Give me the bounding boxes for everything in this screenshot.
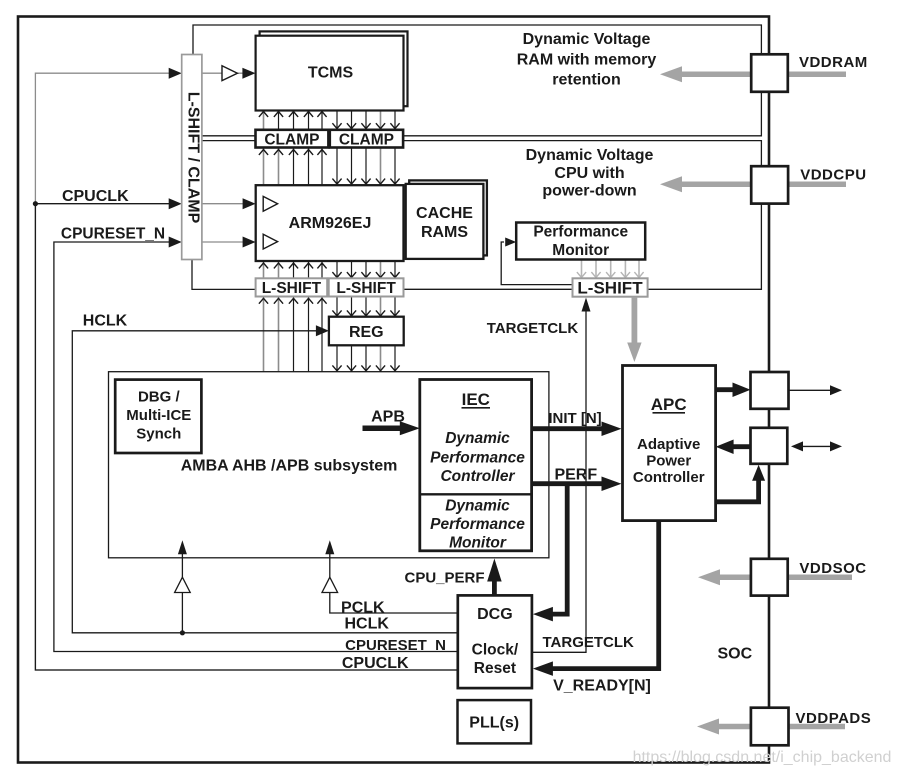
block CLAMP (left)	[256, 130, 329, 148]
svg-text:TCMS: TCMS	[308, 65, 354, 82]
junction CPUCLK trunk dot	[33, 201, 38, 206]
svg-text:Performance: Performance	[430, 516, 525, 533]
svg-text:PCLK: PCLK	[341, 600, 385, 617]
svg-text:Adaptive: Adaptive	[637, 436, 700, 453]
block TCMS	[256, 36, 404, 111]
wire APB bus arrow into IEC	[363, 426, 403, 432]
power arrow VDDPADS supply (gray, pointing left)	[718, 724, 845, 730]
svg-text:L-SHIFT / CLAMP: L-SHIFT / CLAMP	[185, 92, 202, 224]
svg-text:RAMS: RAMS	[421, 224, 468, 241]
wire CPURESET_N net: DCG left output, trunk up, into L-SHIFT/CLAMP	[54, 242, 458, 652]
buffer symbol inside ARM926EJ (reset input triangle)	[263, 234, 277, 249]
pad APC feedback	[751, 428, 788, 464]
svg-text:CPURESET_N: CPURESET_N	[61, 226, 165, 243]
svg-text:RAM with memory: RAM with memory	[517, 52, 657, 69]
Dynamic Voltage CPU power-domain region outline	[202, 141, 761, 290]
svg-text:Performance: Performance	[430, 450, 525, 467]
buffer level-shifter symbol on HCLK branch (open triangle up)	[175, 577, 191, 592]
svg-text:https://blog.csdn.net/i_chip_b: https://blog.csdn.net/i_chip_backend	[633, 749, 892, 766]
underline for APC title	[653, 412, 686, 414]
svg-text:VDDCPU: VDDCPU	[800, 167, 866, 184]
svg-text:VDDSOC: VDDSOC	[799, 560, 866, 577]
wire PERF branch down to DCG	[550, 484, 567, 614]
pad VDDSOC	[751, 559, 788, 596]
bus bundle CLAMP-to-TCMS (arrows up into TCMS)	[263, 112, 265, 130]
svg-text:CLAMP: CLAMP	[264, 131, 319, 148]
bus bundle L-SHIFT-to-ARM (arrows up into ARM)	[263, 262, 265, 278]
block CLAMP (right)	[330, 130, 403, 148]
block CACHE RAMS	[406, 184, 484, 259]
block L-SHIFT (performance monitor domain crossing)	[573, 278, 648, 296]
block CACHE RAMS (shadow page)	[409, 180, 487, 255]
block L-SHIFT (left, under ARM)	[256, 278, 328, 296]
block L-SHIFT / CLAMP (vertical level shifter/clamp column)	[182, 55, 202, 260]
svg-text:TARGETCLK: TARGETCLK	[543, 634, 635, 651]
svg-text:CPUCLK: CPUCLK	[342, 655, 409, 672]
svg-text:HCLK: HCLK	[344, 616, 389, 633]
svg-text:CACHE: CACHE	[416, 205, 473, 222]
wire CPUCLK branch into L-SHIFT/CLAMP (upper, y73)	[169, 68, 182, 79]
wire Performance Monitor feedback from L-SHIFT	[501, 242, 572, 285]
svg-text:APB: APB	[371, 409, 405, 426]
wire thick gray from L-SHIFT down to APC top	[632, 297, 638, 344]
block REG	[329, 317, 404, 346]
wire V_READY[N] from APC down into DCG	[550, 521, 659, 669]
svg-text:Dynamic Voltage: Dynamic Voltage	[526, 147, 654, 164]
svg-text:L-SHIFT: L-SHIFT	[262, 280, 322, 297]
svg-text:L-SHIFT: L-SHIFT	[336, 280, 396, 297]
svg-text:VDDRAM: VDDRAM	[799, 54, 868, 71]
svg-text:power-down: power-down	[542, 183, 636, 200]
power arrow VDDCPU supply (gray, pointing left)	[681, 182, 846, 188]
buffer level-shifter symbol on PCLK branch (open triangle up)	[322, 577, 338, 592]
wire HCLK branch up into AMBA subsystem through level-shifter buffer	[181, 593, 183, 633]
wire TARGETCLK: DCG right output up into L-SHIFT	[532, 311, 586, 652]
svg-text:CPU with: CPU with	[554, 165, 624, 182]
bus bundle AMBA-to-L-SHIFT (arrows up into L-SHIFT)	[263, 298, 265, 372]
bus bundle L-SHIFT-to-REG (arrows down into REG)	[336, 298, 338, 317]
svg-text:Dynamic Voltage: Dynamic Voltage	[523, 31, 651, 48]
svg-text:IEC: IEC	[462, 390, 490, 409]
power arrow VDDRAM supply (gray, pointing left)	[681, 71, 846, 77]
block TCMS (shadow page)	[260, 31, 408, 106]
wire HCLK net: DCG left output, trunk up, into REG	[72, 331, 458, 633]
svg-text:L-SHIFT: L-SHIFT	[577, 278, 643, 297]
pad VDDRAM	[751, 54, 788, 92]
junction HCLK branch dot	[180, 630, 185, 635]
buffer symbol inside ARM926EJ (clock input triangle)	[263, 196, 277, 211]
svg-text:TARGETCLK: TARGETCLK	[487, 320, 579, 337]
block APC Adaptive Power Controller	[623, 366, 716, 521]
bus bundle REG-to-AMBA (arrows down into AMBA)	[336, 346, 338, 371]
svg-text:PERF: PERF	[554, 467, 597, 484]
svg-text:CPUCLK: CPUCLK	[62, 188, 129, 205]
wire PCLK net: DCG left output, up into AMBA subsystem through level-shifter buffer	[330, 593, 458, 614]
block DCG Clock/Reset generator	[458, 595, 532, 688]
svg-text:Synch: Synch	[136, 426, 181, 443]
wire right L-SHIFT to region edge	[648, 288, 762, 290]
svg-text:Multi-ICE: Multi-ICE	[126, 407, 191, 424]
wire thin double arrow at APC feedback pad	[799, 445, 834, 447]
svg-text:Dynamic: Dynamic	[445, 498, 510, 515]
Dynamic Voltage RAM power-domain region outline	[193, 25, 761, 136]
wire L-SHIFT/CLAMP to TCMS through buffer	[202, 72, 222, 74]
svg-text:SOC: SOC	[717, 646, 752, 663]
underline for IEC title	[462, 407, 491, 409]
wire CPUCLK branch into L-SHIFT/CLAMP (mid, y203.7)	[35, 203, 170, 205]
wire L-SHIFT row to right L-SHIFT box (CPU region bottom bus)	[404, 288, 573, 290]
bus bundle TCMS-to-CLAMP (arrows down into CLAMP)	[336, 112, 338, 130]
wire CPUCLK net: DCG left output, trunk up left side, branches into L-SHIFT/CLAMP	[35, 73, 457, 670]
wire PERF from IEC to APC	[532, 481, 604, 486]
wire APC lower output up into pad (thick arrow up)	[716, 478, 759, 502]
power arrow VDDSOC supply (gray, pointing left)	[719, 575, 852, 581]
svg-text:CPU_PERF: CPU_PERF	[404, 570, 484, 587]
block IEC Dynamic Performance Controller / Monitor	[420, 380, 532, 551]
block Performance Monitor	[516, 223, 645, 260]
pad APC output	[751, 372, 789, 409]
svg-text:Dynamic: Dynamic	[445, 430, 510, 447]
block L-SHIFT (right, under ARM)	[329, 278, 404, 296]
svg-text:VDDPADS: VDDPADS	[796, 710, 872, 727]
svg-text:HCLK: HCLK	[83, 313, 128, 330]
divider IEC controller/monitor sections	[420, 493, 532, 495]
bus bundle Performance-Monitor-to-L-SHIFT (light gray, arrows down)	[581, 261, 583, 279]
bus bundle ARM-to-L-SHIFT (arrows down into L-SHIFT)	[336, 262, 338, 278]
svg-text:Monitor: Monitor	[552, 242, 609, 259]
pad VDDPADS	[751, 708, 789, 746]
bus bundle ARM-to-CLAMP (arrows up into CLAMP)	[263, 149, 265, 186]
wire CPU_PERF from DCG up into IEC monitor	[492, 580, 497, 595]
svg-text:CLAMP: CLAMP	[339, 131, 394, 148]
svg-text:retention: retention	[552, 72, 620, 89]
svg-text:Reset: Reset	[474, 660, 516, 677]
wire CPU-region lower-left connector from L-SHIFT/CLAMP bottom	[192, 260, 256, 290]
svg-text:Performance: Performance	[533, 224, 628, 241]
bus bundle CLAMP-to-ARM (arrows down into ARM)	[336, 149, 338, 186]
block DBG / Multi-ICE Synch	[115, 380, 201, 453]
block AMBA AHB/APB subsystem	[109, 372, 549, 558]
svg-text:APC: APC	[651, 395, 687, 414]
svg-text:Power: Power	[646, 453, 691, 470]
svg-text:V_READY[N]: V_READY[N]	[553, 678, 651, 695]
svg-text:DCG: DCG	[477, 606, 513, 623]
svg-text:Controller: Controller	[440, 468, 515, 485]
wire thin arrow out of APC output pad	[789, 389, 833, 391]
block ARM926EJ processor	[256, 185, 404, 261]
wire APC output to pad (thick arrow right)	[716, 387, 733, 392]
wire L-SHIFT/CLAMP to ARM926EJ clock input	[202, 203, 245, 205]
svg-text:DBG /: DBG /	[138, 389, 181, 406]
wire INIT [N] from IEC to APC	[532, 426, 604, 431]
svg-text:INIT [N]: INIT [N]	[548, 410, 601, 427]
pad VDDCPU	[751, 166, 788, 203]
svg-text:REG: REG	[349, 324, 384, 341]
svg-text:Clock/: Clock/	[472, 642, 519, 659]
wire pad feedback into APC (thick arrow left)	[731, 444, 753, 449]
svg-text:CPURESET_N: CPURESET_N	[345, 637, 446, 654]
svg-text:AMBA AHB /APB subsystem: AMBA AHB /APB subsystem	[181, 458, 398, 475]
buffer symbol (open triangle right) on TCMS clock wire	[222, 66, 237, 81]
block PLL(s)	[458, 700, 532, 743]
svg-text:PLL(s): PLL(s)	[469, 715, 519, 732]
svg-text:ARM926EJ: ARM926EJ	[289, 215, 372, 232]
wire L-SHIFT/CLAMP to ARM926EJ reset input	[202, 241, 245, 243]
svg-text:Monitor: Monitor	[449, 534, 507, 551]
svg-text:Controller: Controller	[633, 469, 705, 486]
